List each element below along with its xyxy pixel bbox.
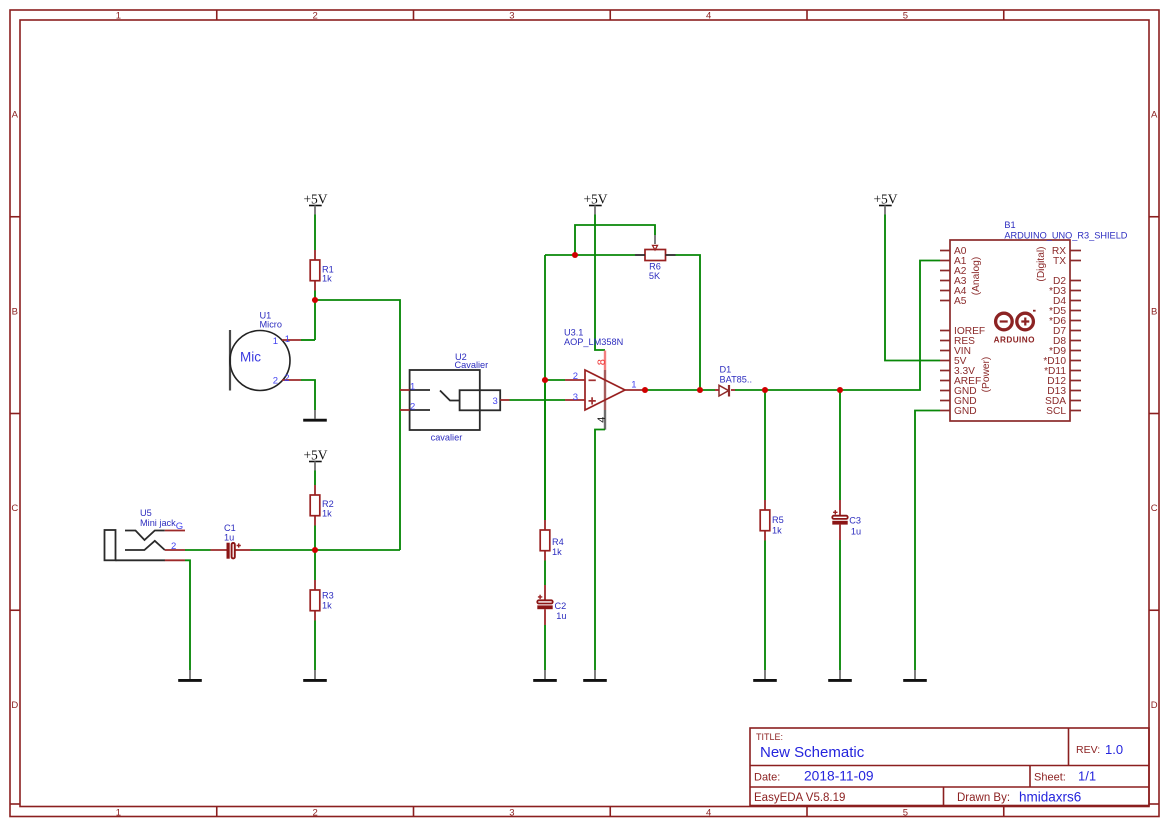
arduino shield B1 (940, 220, 1128, 421)
wire +5V to R1 (314, 215, 316, 251)
svg-text:1k: 1k (552, 547, 562, 557)
svg-text:2: 2 (273, 376, 278, 387)
junction R5 tap (762, 387, 768, 393)
svg-text:(Digital): (Digital) (1036, 246, 1047, 281)
junction R1 / mic bias node (312, 297, 318, 303)
wire R4 to C2 (544, 561, 546, 586)
junction op-amp inverting input (542, 377, 548, 383)
resistor R2 (310, 485, 334, 526)
svg-text:REV:: REV: (1076, 744, 1100, 756)
wire feedback top (545, 254, 635, 256)
svg-text:B: B (1151, 307, 1157, 318)
wire R3 to ground (314, 621, 316, 671)
svg-text:B: B (12, 307, 18, 318)
wire U2 pin3 to op-amp pin3 (510, 399, 566, 401)
wire jack pin2 to C1 (185, 549, 211, 551)
svg-text:Date:: Date: (754, 772, 780, 784)
svg-text:SCL: SCL (1046, 406, 1066, 417)
wire node to R5 (764, 390, 766, 500)
wire node to U2 pin1 column (315, 300, 400, 550)
svg-text:2: 2 (312, 808, 317, 819)
svg-text:1: 1 (631, 380, 636, 391)
svg-text:A: A (12, 110, 19, 121)
wire pot to output node (676, 255, 701, 390)
wire C3 to ground (839, 540, 841, 670)
svg-text:+5V: +5V (873, 192, 897, 207)
wire jack sleeve to ground (185, 560, 190, 670)
capacitor C2 (537, 585, 566, 625)
ground (R3) (303, 670, 327, 680)
svg-text:Drawn By:: Drawn By: (957, 792, 1010, 804)
svg-text:2: 2 (171, 541, 176, 552)
svg-text:5: 5 (903, 808, 908, 819)
svg-text:3: 3 (573, 392, 578, 403)
microphone U1 (230, 311, 301, 391)
power net +5V (above arduino) (873, 192, 897, 215)
ground (mic pin 2) (303, 410, 327, 420)
svg-text:2: 2 (573, 371, 578, 382)
wire +5V to R2 (314, 471, 316, 486)
svg-text:D: D (11, 700, 18, 711)
svg-text:2: 2 (284, 373, 289, 384)
svg-text:Mic: Mic (240, 349, 261, 364)
resistor R1 (310, 250, 334, 291)
svg-text:+5V: +5V (303, 192, 327, 207)
svg-text:Micro: Micro (260, 319, 282, 329)
wire node to R3 (314, 550, 316, 580)
power net +5V (above R2) (303, 448, 327, 471)
diode D1 (715, 365, 752, 397)
svg-text:C3: C3 (849, 516, 861, 526)
svg-text:G: G (176, 521, 183, 532)
svg-text:1: 1 (116, 11, 121, 22)
wire R1 to node (314, 291, 316, 341)
svg-text:New Schematic: New Schematic (760, 744, 865, 761)
svg-text:1k: 1k (772, 526, 782, 536)
ground (op-amp pin 4) (583, 670, 607, 680)
svg-text:1k: 1k (322, 273, 332, 283)
resistor R3 (310, 580, 334, 621)
wire node to R4 (544, 380, 546, 520)
svg-text:(Analog): (Analog) (971, 257, 982, 296)
wire R2 to node (314, 526, 316, 551)
svg-text:BAT85..: BAT85.. (720, 375, 753, 385)
capacitor C1 (211, 523, 251, 559)
svg-text:2: 2 (312, 11, 317, 22)
audio jack U5 (105, 508, 186, 561)
junction divider node (312, 547, 318, 553)
wire feedback column (544, 255, 546, 520)
svg-text:1.0: 1.0 (1105, 742, 1123, 757)
resistor R4 (540, 520, 564, 561)
wire +5V to arduino 5V pin (885, 215, 940, 361)
wire to op-amp pin2 (545, 379, 565, 381)
svg-text:3: 3 (493, 396, 498, 407)
wire arduino GND to ground (915, 411, 940, 671)
ground (arduino GND) (903, 670, 927, 680)
svg-text:2018-11-09: 2018-11-09 (804, 769, 874, 784)
capacitor C3 (832, 500, 861, 540)
wire op-amp output (644, 389, 715, 391)
power net +5V (above R1) (303, 192, 327, 215)
svg-text:hmidaxrs6: hmidaxrs6 (1019, 790, 1081, 805)
svg-text:1: 1 (410, 382, 415, 393)
wire node to C3 (839, 390, 841, 500)
svg-text:4: 4 (706, 11, 711, 22)
svg-text:D1: D1 (720, 365, 732, 375)
svg-text:R5: R5 (772, 515, 784, 525)
svg-text:ARDUINO_UNO_R3_SHIELD: ARDUINO_UNO_R3_SHIELD (1004, 231, 1127, 241)
wire mic pin2 to ground (301, 380, 315, 410)
wire C2 to ground (544, 625, 546, 670)
svg-text:A5: A5 (954, 296, 967, 307)
wire mic pin1 (301, 339, 315, 341)
svg-text:A: A (1151, 110, 1158, 121)
junction wiper feedback (572, 252, 578, 258)
ground (C2) (533, 670, 557, 680)
svg-text:1u: 1u (851, 527, 861, 537)
svg-text:(Power): (Power) (981, 357, 992, 393)
svg-text:C: C (1151, 503, 1158, 514)
svg-text:Sheet:: Sheet: (1034, 772, 1066, 784)
wire +5V to op-amp pin8 (595, 215, 605, 351)
power net +5V (above op-amp) (583, 192, 607, 215)
potentiometer R6 (635, 235, 676, 281)
svg-text:4: 4 (706, 808, 711, 819)
wire op-amp pin4 to ground (595, 430, 605, 671)
svg-text:D: D (1151, 700, 1158, 711)
svg-text:1k: 1k (322, 601, 332, 611)
svg-text:1/1: 1/1 (1078, 769, 1096, 784)
svg-text:R4: R4 (552, 537, 564, 547)
svg-text:1: 1 (285, 334, 290, 345)
svg-text:R2: R2 (322, 499, 334, 509)
junction pot feedback tap (697, 387, 703, 393)
svg-text:1u: 1u (556, 611, 566, 621)
svg-text:2: 2 (410, 402, 415, 413)
op-amp U3.1 (564, 328, 644, 430)
svg-text:3: 3 (509, 11, 514, 22)
svg-text:ARDUINO: ARDUINO (994, 335, 1036, 344)
jumper U2 (400, 352, 510, 443)
ground (R5) (753, 670, 777, 680)
svg-text:1: 1 (273, 336, 278, 347)
svg-text:4: 4 (596, 417, 608, 423)
svg-text:3: 3 (509, 808, 514, 819)
svg-text:B1: B1 (1004, 220, 1015, 230)
svg-text:cavalier: cavalier (431, 433, 463, 443)
svg-text:1u: 1u (224, 532, 234, 542)
svg-text:R3: R3 (322, 591, 334, 601)
junction op-amp output (642, 387, 648, 393)
resistor R5 (760, 500, 784, 541)
svg-text:Cavalier: Cavalier (455, 360, 489, 370)
junction C3 tap (837, 387, 843, 393)
wire C1 to divider node (251, 549, 401, 551)
svg-text:Mini jack: Mini jack (140, 518, 176, 528)
svg-text:1: 1 (116, 808, 121, 819)
svg-text:C: C (11, 503, 18, 514)
svg-text:GND: GND (954, 406, 977, 417)
svg-text:1k: 1k (322, 509, 332, 519)
svg-text:EasyEDA V5.8.19: EasyEDA V5.8.19 (754, 792, 845, 804)
svg-text:8: 8 (596, 359, 608, 365)
wire wiper branch (575, 225, 655, 255)
wire diode to arduino A1 (735, 261, 940, 391)
svg-text:TITLE:: TITLE: (756, 732, 783, 742)
ground (C3) (828, 670, 852, 680)
svg-text:U5: U5 (140, 508, 152, 518)
svg-text:+5V: +5V (583, 192, 607, 207)
svg-text:AOP_LM358N: AOP_LM358N (564, 337, 623, 347)
wire R5 to ground (764, 541, 766, 671)
svg-text:C2: C2 (555, 601, 567, 611)
ground (jack sleeve) (178, 670, 202, 680)
svg-text:5: 5 (903, 11, 908, 22)
svg-text:TX: TX (1053, 256, 1066, 267)
svg-text:5K: 5K (649, 271, 661, 281)
svg-text:+5V: +5V (303, 448, 327, 463)
